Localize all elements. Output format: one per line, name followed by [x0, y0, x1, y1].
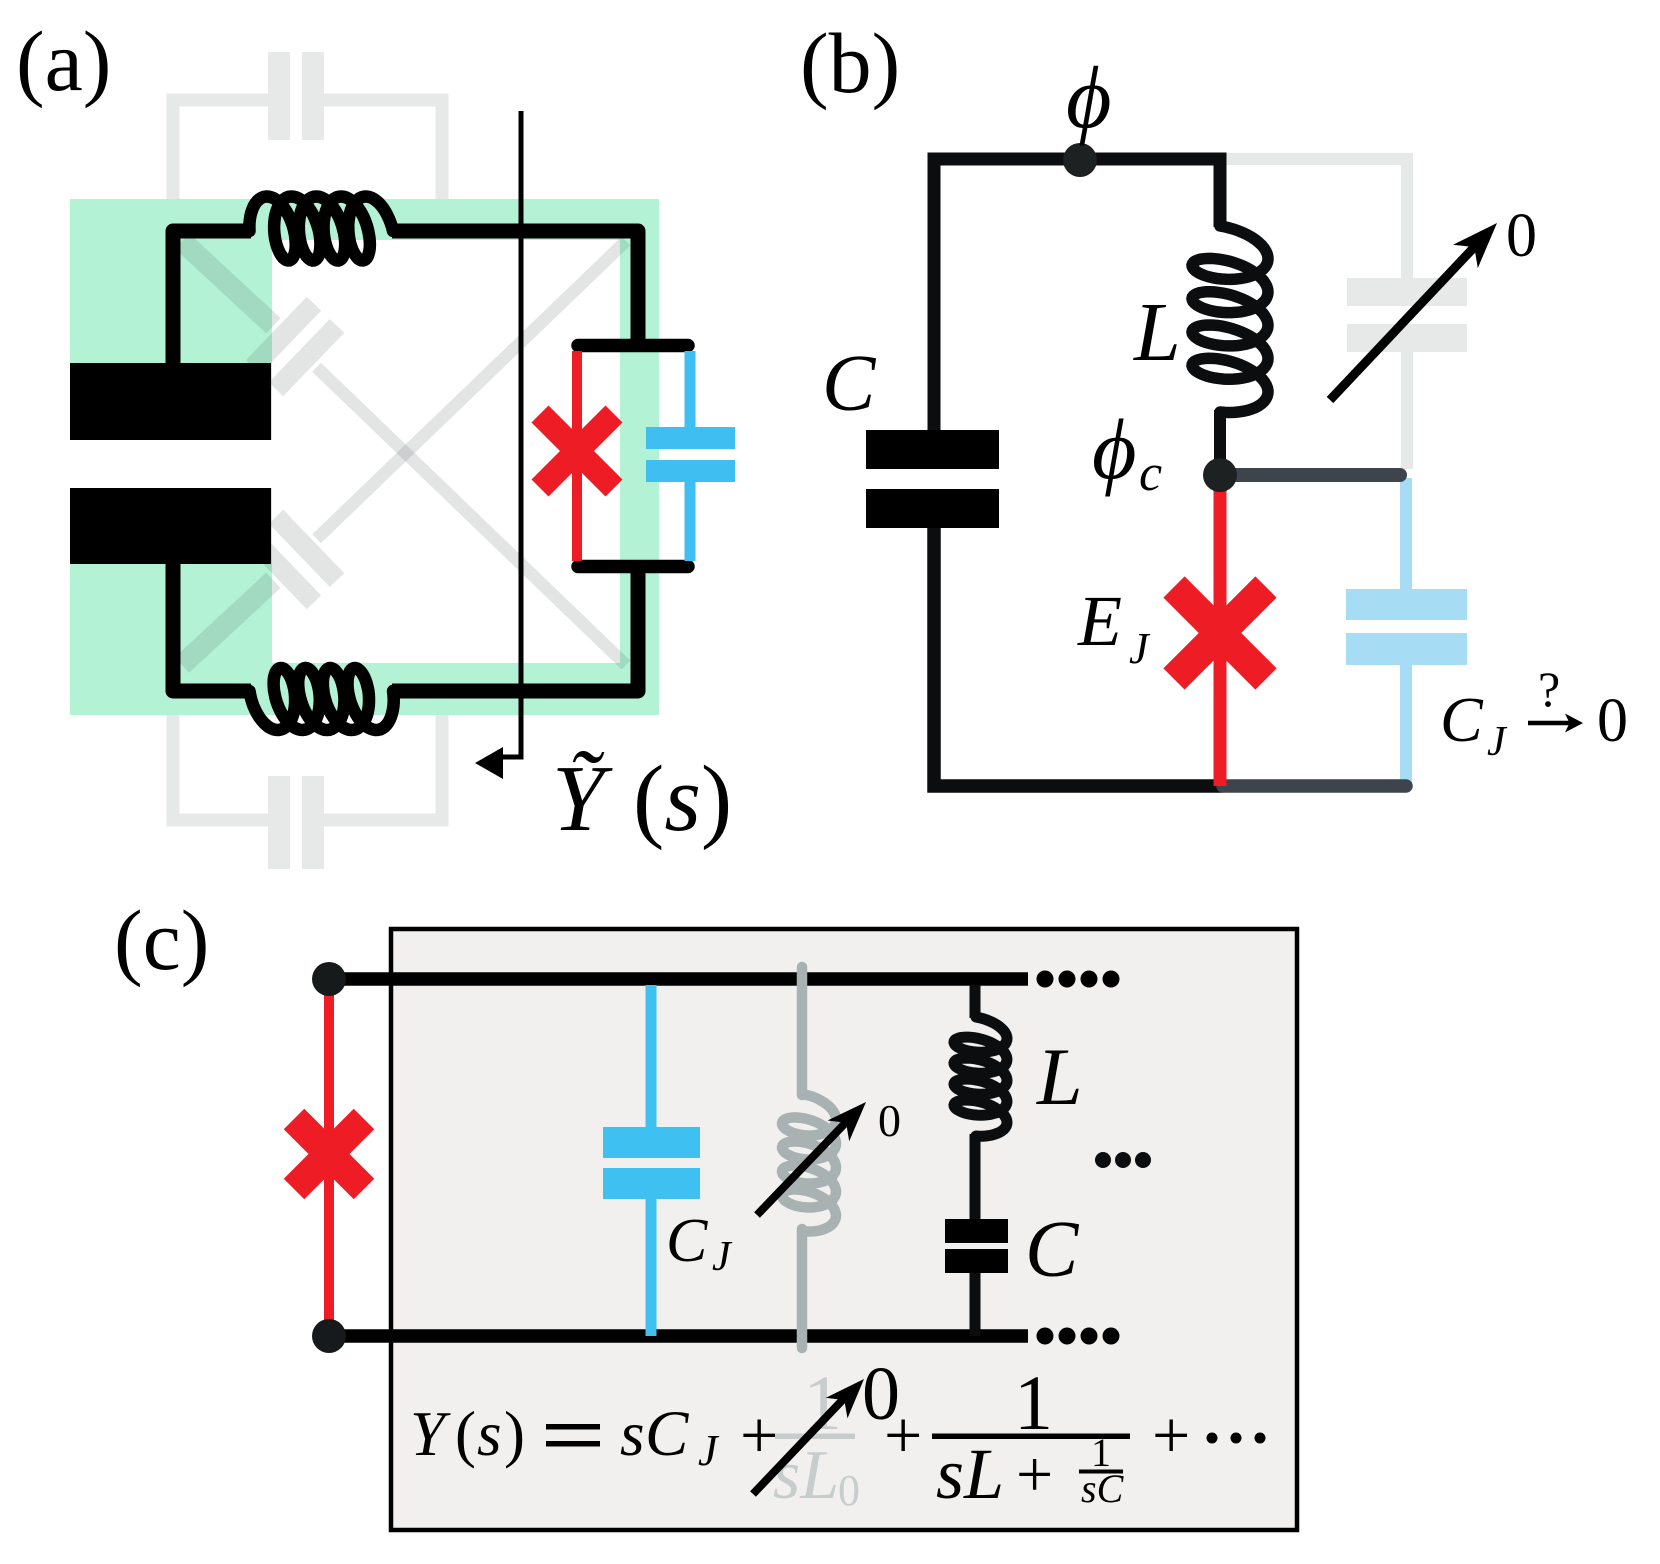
svg-text:C: C — [666, 1207, 708, 1275]
label 0 — [878, 1095, 901, 1146]
capacitor CJ wire (light blue) — [1400, 478, 1412, 788]
svg-text:L: L — [1133, 286, 1181, 379]
plus sign — [740, 1397, 778, 1473]
svg-text:1: 1 — [1014, 1359, 1053, 1446]
label 0 — [1506, 202, 1537, 270]
node (bottom) — [312, 1319, 346, 1353]
svg-text:(a): (a) — [16, 13, 111, 109]
green island (node region) — [70, 199, 659, 715]
svg-text:s: s — [477, 1399, 502, 1469]
wire: top-right of black loop — [392, 231, 638, 343]
wire: C branch top + top rail + inductor lead — [934, 159, 1220, 431]
label Y~(s) — [552, 747, 732, 851]
svg-text:ϕ: ϕ — [1066, 50, 1112, 147]
white loop interior — [272, 240, 620, 663]
ellipsis (mid chain) — [1095, 1152, 1151, 1168]
svg-text:0: 0 — [838, 1466, 860, 1515]
label C — [1025, 1206, 1080, 1294]
wire: bottom-right of black loop — [392, 569, 638, 691]
svg-text:+: + — [884, 1397, 922, 1473]
inductor (top coil) — [249, 197, 393, 261]
label 0 (formula) — [862, 1352, 900, 1436]
label phi_c — [1092, 401, 1162, 502]
ghost junction diagonal B (stub + plates + thin line) — [182, 241, 626, 665]
ghost shunt-capacitor loop (gray wire rectangle) — [173, 100, 442, 820]
chain box — [391, 929, 1297, 1530]
label CJ — [666, 1207, 733, 1280]
top rail continuation dots — [1037, 971, 1120, 988]
svg-text:C: C — [645, 1398, 689, 1470]
capacitor CJ plates (light blue) — [1346, 589, 1467, 665]
Josephson junction X EJ (red) — [1174, 587, 1266, 679]
svg-text:0: 0 — [878, 1095, 901, 1146]
shunt inductor L0 (gray) bottom lead — [797, 1229, 808, 1348]
svg-text:(s): (s) — [633, 747, 732, 851]
junction wire (red) — [1214, 475, 1227, 786]
wire: coil to node phi_c — [1214, 410, 1226, 462]
plus sign — [884, 1397, 922, 1473]
cut-line arrowhead — [475, 747, 503, 779]
svg-text:ϕ: ϕ — [1092, 401, 1137, 497]
svg-text:+: + — [1152, 1397, 1190, 1473]
junction wire (red) — [324, 979, 334, 1336]
label L — [1036, 1031, 1083, 1122]
Josephson junction X (red) — [294, 1119, 364, 1189]
panel label (b) — [800, 15, 900, 111]
svg-text:C: C — [822, 340, 877, 428]
shunt inductor L0 (gray coil) — [782, 1094, 836, 1232]
ghost capacitor bottom plates — [268, 776, 324, 869]
junction wire (red) — [572, 351, 582, 561]
node phi — [1063, 143, 1097, 177]
grayed term 1/sL0 — [773, 1359, 860, 1515]
svg-text:(: ( — [455, 1399, 476, 1469]
junction capacitor wire (blue) — [685, 351, 696, 561]
LC branch top lead — [970, 985, 981, 1018]
Josephson junction X (red) — [540, 414, 614, 488]
svg-text:sL: sL — [936, 1434, 1004, 1514]
capacitor C plates (black) — [945, 1219, 1008, 1273]
label CJ -> 0 — [1440, 661, 1628, 765]
ghost capacitor plates (gray) — [1347, 278, 1467, 352]
svg-text:J: J — [698, 1426, 720, 1475]
arrow to zero (over 1/sL0) — [753, 1390, 852, 1494]
svg-text:sC: sC — [1081, 1466, 1125, 1511]
svg-text:J: J — [712, 1234, 733, 1280]
arrow to zero (over ghost capacitor) — [1330, 241, 1480, 400]
wire: top-left L of black loop — [173, 231, 251, 365]
wire below C — [970, 1273, 981, 1336]
svg-text:sL: sL — [773, 1437, 839, 1514]
ghost capacitor top plates — [268, 52, 324, 140]
ghost capacitor branch (gray) — [1226, 159, 1407, 469]
svg-text:?: ? — [1538, 661, 1560, 717]
panel label (a) — [16, 13, 111, 109]
svg-text:J: J — [1487, 719, 1508, 765]
inductor L (coil) — [1192, 226, 1268, 413]
svg-text:C: C — [1440, 684, 1484, 755]
label phi — [1066, 50, 1112, 147]
wire: bottom-left L of black loop — [173, 562, 251, 691]
wire between L and C — [970, 1134, 981, 1220]
svg-text:L: L — [1036, 1031, 1083, 1122]
svg-text:Ỹ: Ỹ — [552, 747, 613, 851]
junction block top bar — [578, 339, 688, 353]
node (top) — [312, 962, 346, 996]
formula Y(s) = sCJ — [410, 1398, 720, 1475]
svg-text:0: 0 — [1506, 202, 1537, 270]
svg-text:(b): (b) — [800, 15, 900, 111]
svg-text:Y: Y — [410, 1399, 451, 1469]
bottom coupling wire (dark slate) — [1223, 779, 1406, 793]
svg-text:(c): (c) — [114, 892, 209, 988]
plus cdots — [1152, 1397, 1266, 1473]
admittance cut line — [500, 111, 521, 757]
svg-text:+: + — [1016, 1438, 1053, 1511]
coupling wire phi_c to CJ (dark slate) — [1222, 468, 1400, 482]
svg-text:s: s — [620, 1399, 645, 1469]
shunt capacitor pad (top black plate) — [70, 363, 271, 440]
second fraction 1/(sL+1/sC) — [932, 1359, 1130, 1514]
shunt capacitor pad (bottom black plate) — [70, 488, 271, 564]
inductor L (black coil) — [954, 1017, 1007, 1136]
white gap between capacitor pads — [70, 440, 272, 488]
junction block bottom bar — [578, 560, 688, 574]
label C — [822, 340, 877, 428]
junction capacitor plates (blue) — [646, 427, 735, 482]
inductor (bottom coil) — [250, 668, 394, 730]
svg-text:c: c — [1139, 445, 1162, 502]
arrow to zero (over gray inductor) — [757, 1116, 852, 1215]
top rail — [329, 972, 1028, 986]
svg-text:): ) — [504, 1399, 525, 1469]
svg-text:0: 0 — [1597, 687, 1628, 755]
shunt inductor L0 (gray) top lead — [797, 967, 808, 1095]
bottom rail continuation dots — [1037, 1328, 1120, 1345]
wire: C branch bottom + bottom rail — [934, 528, 1223, 786]
svg-text:E: E — [1077, 581, 1122, 661]
capacitor CJ plates (blue) — [603, 1127, 700, 1199]
svg-text:C: C — [1025, 1206, 1080, 1294]
capacitor CJ branch (blue) — [646, 985, 657, 1336]
label L — [1133, 286, 1181, 379]
label EJ — [1077, 581, 1151, 673]
node phi_c — [1203, 458, 1237, 492]
capacitor C plates — [866, 430, 999, 528]
svg-text:J: J — [1129, 624, 1151, 673]
bottom rail — [329, 1329, 1028, 1343]
ghost junction diagonal A (stub + plates + thin line) — [182, 241, 626, 665]
panel label (c) — [114, 892, 209, 988]
